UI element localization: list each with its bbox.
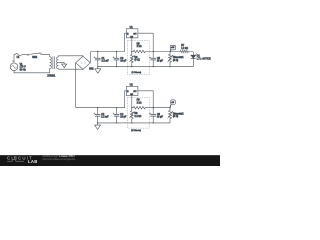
capacitor C4 [116, 108, 118, 123]
wire: top output rail [149, 51, 180, 53]
ground (C2 / bottom bus) [97, 123, 99, 125]
wire: fuse to switch [22, 54, 28, 56]
capacitor C5 [152, 52, 154, 67]
transformer T1 primary coil [50, 57, 52, 69]
ground (center tap) [63, 63, 65, 64]
wire: bottom output rail [149, 107, 170, 109]
wire: bridge - output down to bottom rail [76, 63, 98, 108]
LED D1 [191, 55, 196, 58]
svg-text:LAB: LAB [28, 159, 38, 164]
wire: secondary center tap [58, 62, 64, 64]
bridge rectifier BR1 [76, 56, 91, 69]
wire: U2 input pin riser [125, 91, 127, 108]
node: top rail (C1 junction to U1 input riser) [98, 51, 125, 53]
wire: switch to transformer primary [42, 54, 50, 57]
wire: U1 input pin riser [125, 33, 127, 51]
wire: secondary bottom to bridge AC2 [58, 68, 83, 71]
capacitor C3 [116, 52, 118, 67]
capacitor C6 [152, 108, 154, 123]
wire: U2 output pin to output riser [138, 91, 153, 108]
wire: secondary top to bridge AC1 [58, 56, 83, 57]
capacitor C2 [97, 108, 99, 123]
resistor R5 [132, 50, 149, 53]
rheostat Rheostat2 [169, 107, 170, 108]
capacitor C1 [97, 52, 99, 67]
wire: U1 adj pin down [131, 38, 133, 52]
resistor R8 [132, 106, 149, 109]
rheostat Rheostat1 [170, 51, 171, 52]
wire: AC source top lead [14, 55, 15, 63]
top ground bus [98, 66, 194, 68]
potentiometer R6 [130, 52, 133, 67]
regulator U2 [126, 86, 138, 95]
dashed adjust box (bottom) [127, 97, 149, 128]
wire: R7 to LED [188, 52, 193, 56]
transformer T1 secondary coil [57, 57, 59, 69]
dashed adjust box (top) [127, 41, 149, 75]
wire: U2 adj pin down [131, 96, 133, 108]
ground (C1 / top bus) [97, 67, 99, 69]
voltage source V1 [10, 63, 18, 71]
wire: LED cathode to bus [192, 58, 194, 66]
fuse F1 [15, 53, 22, 56]
node flag -15V [171, 100, 176, 105]
regulator U1 [126, 29, 138, 38]
wire: U1 output pin to output riser [138, 33, 153, 51]
node flag +15V [170, 45, 175, 50]
node: bottom rail (input side) [98, 107, 125, 109]
bottom ground bus [98, 122, 170, 124]
svg-text:http://circuitlab.com/c4gkahle: http://circuitlab.com/c4gkahle [42, 157, 75, 161]
wire: primary bottom return to source [14, 69, 50, 73]
transformer core [53, 56, 54, 69]
resistor R7 [180, 50, 188, 53]
switch SW1 [27, 54, 29, 56]
potentiometer R9 [130, 108, 133, 123]
wire: bridge + output riser to top rail [90, 52, 98, 63]
